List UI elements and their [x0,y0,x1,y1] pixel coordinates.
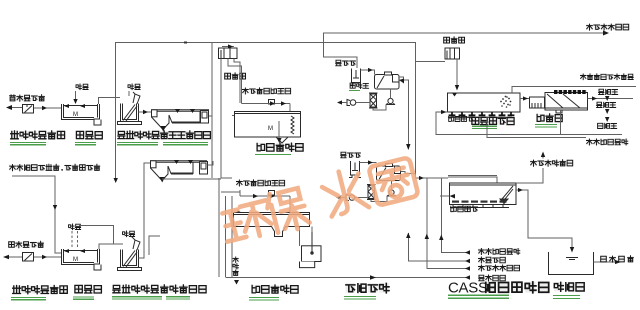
svg-text:M: M [268,126,273,132]
svg-text:CASS: CASS [448,280,488,297]
svg-text:M: M [73,257,78,263]
svg-text:M: M [73,112,78,118]
